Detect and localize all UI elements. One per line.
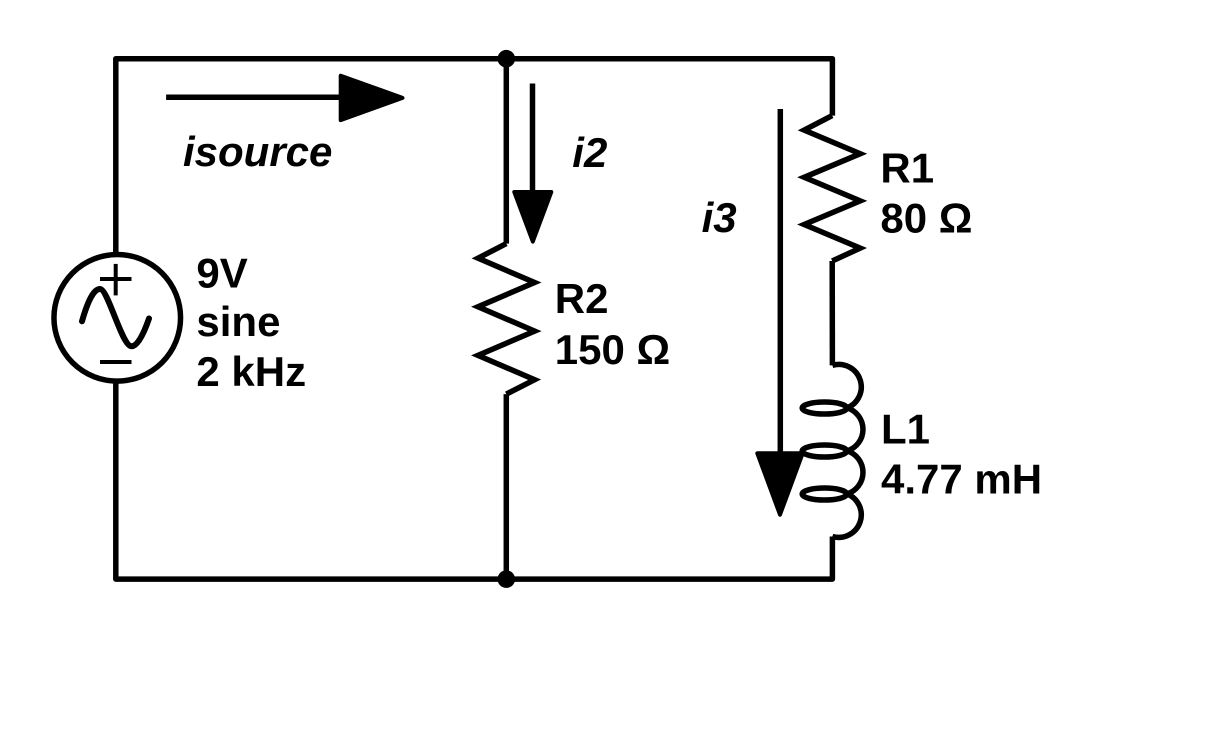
svg-text:L1: L1 [881, 405, 930, 452]
svg-text:isource: isource [183, 128, 332, 175]
svg-text:150 Ω: 150 Ω [555, 326, 670, 373]
svg-text:9V: 9V [196, 250, 247, 297]
svg-text:80 Ω: 80 Ω [880, 195, 972, 242]
svg-text:2 kHz: 2 kHz [196, 348, 306, 395]
svg-text:R2: R2 [555, 275, 609, 322]
svg-text:sine: sine [196, 298, 280, 345]
svg-text:i2: i2 [572, 129, 607, 176]
svg-text:R1: R1 [880, 144, 934, 191]
svg-text:i3: i3 [702, 194, 737, 241]
svg-text:4.77 mH: 4.77 mH [881, 456, 1042, 503]
